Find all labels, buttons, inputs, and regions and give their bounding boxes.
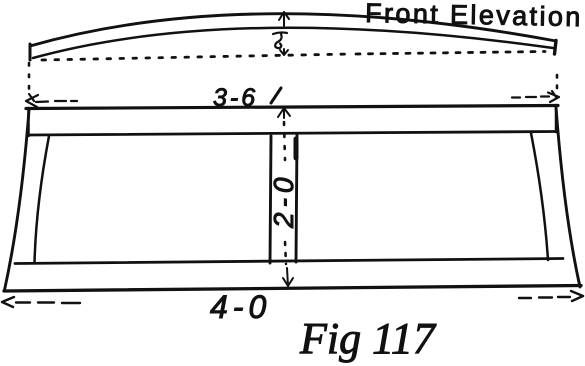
dim 3-6 right dashes and arrow [512, 91, 559, 102]
bottom rail bottom edge [4, 286, 581, 292]
rise down arrow [280, 49, 288, 55]
top rail right cap [555, 105, 558, 132]
centre dim dotted line lower [285, 242, 286, 264]
centre dim dotted line upper [284, 122, 285, 160]
left leg outer curve [5, 110, 30, 290]
bottom rail top edge [15, 259, 563, 264]
springing dotted line right part [356, 52, 545, 55]
dim 3-6 right extension dotted [556, 75, 559, 93]
top rail bottom edge [29, 132, 556, 136]
dim 4-0 left arrow and dashes [2, 297, 80, 307]
top rail top edge [26, 106, 558, 109]
centre dim down arrow [283, 268, 293, 286]
arch outer curve [30, 14, 556, 46]
rise label 1/2 [273, 32, 287, 48]
springing dotted line [42, 54, 350, 60]
centre post left edge [270, 136, 271, 263]
centre dim up arrow [278, 108, 290, 118]
ink blot on post [294, 139, 299, 158]
left leg inner curve [35, 136, 50, 263]
svg-text:2-0: 2-0 [268, 173, 299, 229]
top rail left cap [27, 108, 30, 136]
arch inner curve [33, 28, 553, 58]
dim label half slash [271, 88, 281, 103]
svg-text:4-0: 4-0 [210, 289, 271, 325]
centre post right edge [296, 135, 297, 262]
arch right end cap [555, 41, 557, 55]
rise dimension up arrow [279, 12, 289, 26]
arch left end cap [29, 44, 32, 60]
dim 4-0 right dashes and arrow [519, 291, 583, 301]
right leg inner curve [531, 133, 548, 260]
dim 3-6 left extension dotted [28, 63, 31, 92]
right leg outer curve [556, 107, 580, 287]
svg-text:Fig 117: Fig 117 [299, 314, 437, 363]
svg-text:Front Elevation: Front Elevation [365, 0, 583, 32]
dim 3-6 left arrow and dashes [26, 94, 77, 107]
